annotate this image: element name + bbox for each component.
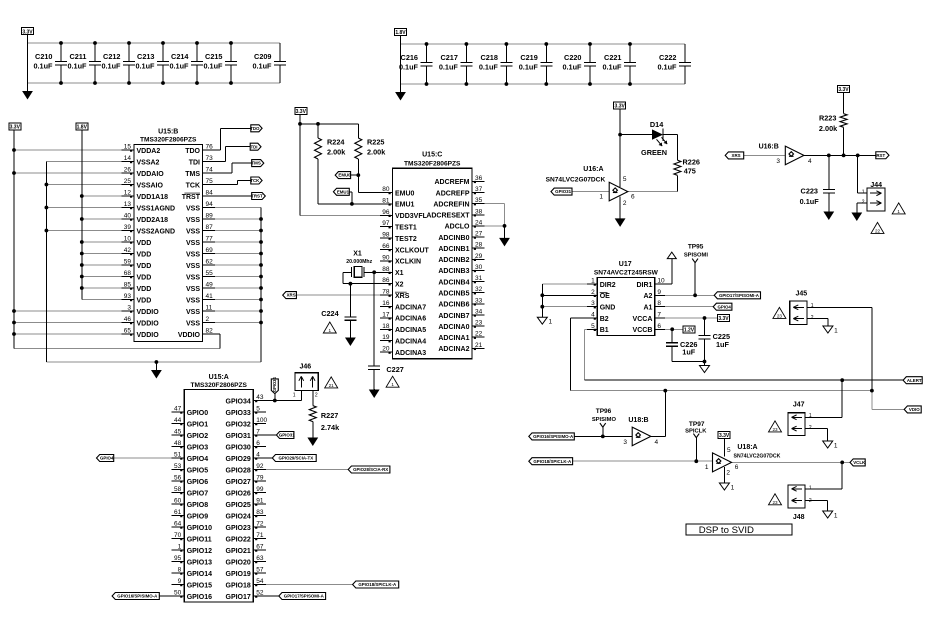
svg-text:XRS: XRS bbox=[732, 153, 741, 158]
svg-text:1: 1 bbox=[591, 278, 595, 285]
svg-text:54: 54 bbox=[256, 578, 264, 585]
svg-text:TMS320F2806PZS: TMS320F2806PZS bbox=[191, 382, 248, 389]
svg-text:ADCINA6: ADCINA6 bbox=[395, 316, 426, 323]
svg-text:GPIO14: GPIO14 bbox=[187, 571, 212, 578]
svg-text:VDIO: VDIO bbox=[909, 407, 920, 412]
svg-text:9: 9 bbox=[657, 289, 661, 296]
svg-text:C211: C211 bbox=[69, 52, 86, 61]
svg-text:77: 77 bbox=[206, 236, 214, 243]
svg-text:5: 5 bbox=[591, 323, 595, 330]
svg-text:91: 91 bbox=[256, 498, 264, 505]
svg-text:ADCREFP: ADCREFP bbox=[436, 190, 470, 197]
svg-text:A2: A2 bbox=[643, 293, 652, 300]
svg-text:J45: J45 bbox=[795, 290, 807, 297]
svg-text:VDD: VDD bbox=[137, 274, 152, 281]
svg-text:1.8V: 1.8V bbox=[77, 125, 88, 131]
svg-text:0.1uF: 0.1uF bbox=[602, 63, 622, 72]
svg-text:96: 96 bbox=[382, 209, 390, 216]
svg-text:VDD: VDD bbox=[137, 251, 152, 258]
svg-text:17: 17 bbox=[382, 311, 390, 318]
svg-text:VSS: VSS bbox=[186, 297, 200, 304]
svg-text:5: 5 bbox=[256, 406, 260, 413]
svg-text:ADCINA4: ADCINA4 bbox=[395, 339, 426, 346]
svg-text:23: 23 bbox=[475, 320, 483, 327]
svg-text:C220: C220 bbox=[564, 53, 581, 62]
svg-text:6: 6 bbox=[256, 440, 260, 447]
svg-text:ADCINA1: ADCINA1 bbox=[438, 335, 469, 342]
svg-text:C214: C214 bbox=[171, 52, 189, 61]
svg-text:GPIO29: GPIO29 bbox=[226, 456, 251, 463]
svg-text:GPIO26: GPIO26 bbox=[226, 490, 251, 497]
svg-text:32: 32 bbox=[475, 286, 483, 293]
svg-text:ADCINB2: ADCINB2 bbox=[438, 257, 469, 264]
svg-text:C221: C221 bbox=[604, 53, 621, 62]
svg-text:20: 20 bbox=[382, 346, 390, 353]
svg-text:C212: C212 bbox=[103, 52, 120, 61]
svg-text:12: 12 bbox=[124, 190, 132, 197]
svg-text:TEST1: TEST1 bbox=[395, 225, 417, 232]
svg-text:4: 4 bbox=[808, 158, 812, 165]
svg-text:41: 41 bbox=[206, 293, 214, 300]
svg-text:46: 46 bbox=[124, 316, 132, 323]
svg-text:87: 87 bbox=[206, 224, 214, 231]
svg-text:16: 16 bbox=[382, 300, 390, 307]
svg-text:VDDA2: VDDA2 bbox=[137, 148, 161, 155]
svg-text:TDI: TDI bbox=[189, 159, 200, 166]
svg-text:ADCRESEXT: ADCRESEXT bbox=[426, 213, 470, 220]
svg-text:ADCINB1: ADCINB1 bbox=[438, 246, 469, 253]
svg-text:57: 57 bbox=[256, 567, 264, 574]
svg-text:11: 11 bbox=[206, 305, 213, 312]
svg-text:75: 75 bbox=[206, 178, 214, 185]
svg-text:DSP to SVID: DSP to SVID bbox=[699, 525, 754, 536]
svg-text:30: 30 bbox=[475, 264, 483, 271]
svg-text:95: 95 bbox=[174, 555, 182, 562]
svg-text:98: 98 bbox=[382, 232, 390, 239]
svg-text:C216: C216 bbox=[401, 53, 418, 62]
svg-text:19: 19 bbox=[382, 334, 390, 341]
svg-text:ADCINA5: ADCINA5 bbox=[395, 327, 426, 334]
svg-text:2: 2 bbox=[811, 315, 814, 321]
svg-text:GPIO4: GPIO4 bbox=[100, 456, 114, 461]
svg-text:GPIO19: GPIO19 bbox=[226, 571, 251, 578]
svg-text:VSS2AGND: VSS2AGND bbox=[137, 228, 176, 235]
svg-text:10: 10 bbox=[124, 236, 132, 243]
svg-text:GPIO13: GPIO13 bbox=[187, 559, 212, 566]
svg-text:5: 5 bbox=[727, 447, 731, 454]
svg-text:0.1uF: 0.1uF bbox=[439, 63, 459, 72]
svg-text:3.3V: 3.3V bbox=[719, 433, 730, 439]
svg-text:ADCINA0: ADCINA0 bbox=[438, 324, 469, 331]
svg-text:21: 21 bbox=[329, 383, 335, 388]
svg-text:14: 14 bbox=[124, 155, 132, 162]
svg-text:VDD: VDD bbox=[137, 240, 152, 247]
svg-text:U15:B: U15:B bbox=[158, 129, 178, 136]
svg-text:DIR2: DIR2 bbox=[600, 282, 616, 289]
svg-text:C223: C223 bbox=[801, 187, 818, 196]
svg-text:GPIO23: GPIO23 bbox=[226, 525, 251, 532]
svg-text:U18:B: U18:B bbox=[628, 417, 648, 424]
svg-text:SN74AVC2T245RSW: SN74AVC2T245RSW bbox=[594, 270, 659, 277]
svg-text:81: 81 bbox=[382, 197, 390, 204]
svg-text:TRST: TRST bbox=[182, 194, 201, 201]
svg-text:VCCB: VCCB bbox=[633, 327, 653, 334]
svg-text:88: 88 bbox=[382, 266, 390, 273]
svg-text:VSS: VSS bbox=[186, 274, 200, 281]
svg-text:ADCINA2: ADCINA2 bbox=[438, 346, 469, 353]
svg-text:XRS: XRS bbox=[287, 293, 296, 298]
svg-text:1: 1 bbox=[834, 443, 838, 450]
svg-text:EMU0: EMU0 bbox=[338, 173, 351, 178]
svg-text:GPIO6: GPIO6 bbox=[187, 479, 209, 486]
svg-text:42: 42 bbox=[124, 247, 132, 254]
svg-text:GPIO11: GPIO11 bbox=[187, 536, 212, 543]
svg-text:ADCREFIN: ADCREFIN bbox=[433, 201, 469, 208]
svg-text:R226: R226 bbox=[683, 157, 700, 166]
svg-text:1: 1 bbox=[549, 319, 553, 326]
svg-text:1.2V: 1.2V bbox=[684, 327, 695, 333]
svg-text:GPIO21: GPIO21 bbox=[226, 548, 251, 555]
svg-text:4: 4 bbox=[591, 312, 595, 319]
svg-text:GPIO2: GPIO2 bbox=[187, 433, 209, 440]
svg-text:J46: J46 bbox=[299, 363, 311, 370]
svg-text:TEST2: TEST2 bbox=[395, 236, 417, 243]
svg-text:GPIO4: GPIO4 bbox=[187, 456, 209, 463]
svg-text:1: 1 bbox=[599, 193, 603, 200]
svg-text:SN74LVC2G07DCK: SN74LVC2G07DCK bbox=[734, 454, 781, 460]
svg-text:GPIO17: GPIO17 bbox=[226, 594, 251, 601]
svg-text:GPIO34: GPIO34 bbox=[226, 398, 251, 405]
svg-text:X2: X2 bbox=[395, 282, 404, 289]
svg-text:0.1uF: 0.1uF bbox=[169, 62, 189, 71]
svg-text:TCK: TCK bbox=[250, 178, 260, 183]
svg-text:VSSA2: VSSA2 bbox=[137, 159, 160, 166]
svg-text:VDD2A18: VDD2A18 bbox=[137, 217, 169, 224]
svg-text:R223: R223 bbox=[819, 114, 836, 123]
svg-text:62: 62 bbox=[206, 259, 214, 266]
svg-text:18: 18 bbox=[382, 323, 390, 330]
svg-text:83: 83 bbox=[256, 509, 264, 516]
svg-text:GPIO25: GPIO25 bbox=[226, 502, 251, 509]
svg-text:0.1uF: 0.1uF bbox=[519, 63, 539, 72]
svg-text:89: 89 bbox=[206, 213, 214, 220]
svg-text:C213: C213 bbox=[137, 52, 154, 61]
svg-text:9: 9 bbox=[178, 578, 182, 585]
svg-text:VSS: VSS bbox=[186, 320, 200, 327]
svg-text:5: 5 bbox=[623, 176, 627, 183]
svg-text:J47: J47 bbox=[793, 401, 805, 408]
svg-text:71: 71 bbox=[256, 532, 264, 539]
svg-text:GPIO30: GPIO30 bbox=[226, 444, 251, 451]
svg-text:38: 38 bbox=[475, 208, 483, 215]
svg-text:GPIO8: GPIO8 bbox=[187, 502, 209, 509]
svg-text:VCCA: VCCA bbox=[633, 316, 653, 323]
svg-text:0.1uF: 0.1uF bbox=[33, 62, 53, 71]
svg-text:R224: R224 bbox=[327, 138, 345, 147]
svg-text:VSS: VSS bbox=[186, 217, 200, 224]
svg-text:GPIO15: GPIO15 bbox=[187, 582, 212, 589]
svg-text:53: 53 bbox=[174, 463, 182, 470]
svg-text:C209: C209 bbox=[254, 52, 271, 61]
svg-text:23: 23 bbox=[777, 313, 783, 318]
svg-text:GPIO28/SCIA-RX: GPIO28/SCIA-RX bbox=[353, 467, 388, 472]
svg-text:VSS: VSS bbox=[186, 240, 200, 247]
svg-text:0.1uF: 0.1uF bbox=[657, 63, 677, 72]
svg-text:6: 6 bbox=[735, 464, 739, 471]
svg-text:J44: J44 bbox=[870, 182, 882, 189]
svg-text:90: 90 bbox=[382, 254, 390, 261]
svg-text:GPIO28: GPIO28 bbox=[226, 467, 251, 474]
svg-text:28: 28 bbox=[475, 242, 483, 249]
svg-text:58: 58 bbox=[174, 486, 182, 493]
svg-text:1.8V: 1.8V bbox=[395, 30, 406, 36]
svg-text:GPIO16/SPISIMO-A: GPIO16/SPISIMO-A bbox=[533, 434, 574, 439]
svg-text:ADCINA7: ADCINA7 bbox=[395, 304, 426, 311]
svg-text:C210: C210 bbox=[35, 52, 52, 61]
svg-text:21: 21 bbox=[475, 342, 483, 349]
svg-text:XRS: XRS bbox=[395, 293, 410, 300]
svg-text:U16:B: U16:B bbox=[759, 143, 779, 150]
svg-text:1uF: 1uF bbox=[682, 348, 696, 357]
svg-text:TMS: TMS bbox=[185, 171, 200, 178]
svg-text:U16:A: U16:A bbox=[583, 166, 603, 173]
svg-text:1: 1 bbox=[834, 513, 838, 520]
svg-text:76: 76 bbox=[206, 144, 214, 151]
svg-text:3: 3 bbox=[591, 300, 595, 307]
svg-text:XCLKIN: XCLKIN bbox=[395, 259, 421, 266]
svg-text:36: 36 bbox=[475, 175, 483, 182]
svg-text:2: 2 bbox=[862, 200, 865, 206]
svg-text:VDDIO: VDDIO bbox=[178, 332, 201, 339]
svg-text:3.3V: 3.3V bbox=[22, 29, 33, 35]
svg-text:VDD: VDD bbox=[137, 297, 152, 304]
svg-text:TDI: TDI bbox=[250, 144, 257, 149]
svg-text:2: 2 bbox=[206, 316, 210, 323]
svg-text:72: 72 bbox=[256, 521, 264, 528]
svg-text:0.1uF: 0.1uF bbox=[67, 62, 87, 71]
svg-text:VDD1A18: VDD1A18 bbox=[137, 194, 169, 201]
svg-text:1uF: 1uF bbox=[716, 340, 730, 349]
svg-text:4: 4 bbox=[256, 452, 260, 459]
svg-text:VDDAIO: VDDAIO bbox=[137, 171, 165, 178]
svg-text:X1: X1 bbox=[353, 251, 362, 258]
svg-text:R225: R225 bbox=[367, 138, 384, 147]
svg-text:22: 22 bbox=[475, 331, 483, 338]
svg-text:63: 63 bbox=[256, 555, 264, 562]
svg-text:VDD3VFL: VDD3VFL bbox=[395, 213, 428, 220]
svg-text:45: 45 bbox=[174, 429, 182, 436]
svg-text:6: 6 bbox=[631, 193, 635, 200]
svg-text:ADCINB4: ADCINB4 bbox=[438, 279, 469, 286]
svg-text:29: 29 bbox=[475, 253, 483, 260]
svg-text:RST: RST bbox=[876, 153, 885, 158]
svg-text:GPIO3: GPIO3 bbox=[187, 444, 209, 451]
svg-text:TMS320F2806PZS: TMS320F2806PZS bbox=[404, 160, 461, 167]
svg-text:52: 52 bbox=[256, 590, 264, 597]
svg-text:GPIO31: GPIO31 bbox=[279, 433, 295, 438]
svg-text:13: 13 bbox=[124, 201, 132, 208]
svg-text:2: 2 bbox=[726, 470, 730, 477]
svg-text:74: 74 bbox=[206, 167, 214, 174]
svg-text:10: 10 bbox=[657, 278, 665, 285]
svg-text:1: 1 bbox=[809, 413, 812, 419]
svg-text:93: 93 bbox=[124, 293, 132, 300]
svg-text:VDD: VDD bbox=[137, 286, 152, 293]
svg-text:VSS: VSS bbox=[186, 309, 200, 316]
svg-text:73: 73 bbox=[206, 155, 214, 162]
svg-text:70: 70 bbox=[174, 532, 182, 539]
svg-text:3.3V: 3.3V bbox=[838, 87, 849, 93]
svg-text:85: 85 bbox=[124, 282, 132, 289]
svg-text:GPIO34: GPIO34 bbox=[272, 377, 277, 393]
svg-text:1: 1 bbox=[329, 328, 332, 333]
svg-text:EMU1: EMU1 bbox=[337, 189, 350, 194]
svg-text:VSS: VSS bbox=[186, 251, 200, 258]
svg-text:GPIO31: GPIO31 bbox=[555, 189, 571, 194]
svg-text:GPIO17/SPISOMI-A: GPIO17/SPISOMI-A bbox=[284, 594, 325, 599]
svg-text:26: 26 bbox=[124, 167, 132, 174]
svg-text:VDD: VDD bbox=[137, 263, 152, 270]
svg-text:VSS: VSS bbox=[186, 263, 200, 270]
svg-text:0.1uF: 0.1uF bbox=[562, 63, 582, 72]
svg-text:3.3V: 3.3V bbox=[296, 109, 307, 115]
svg-text:GPIO33: GPIO33 bbox=[226, 410, 251, 417]
svg-text:60: 60 bbox=[174, 498, 182, 505]
svg-text:84: 84 bbox=[206, 190, 214, 197]
svg-text:GPIO9: GPIO9 bbox=[187, 513, 209, 520]
svg-text:69: 69 bbox=[206, 247, 214, 254]
svg-text:47: 47 bbox=[174, 406, 182, 413]
svg-text:15: 15 bbox=[124, 144, 132, 151]
svg-text:GPIO22: GPIO22 bbox=[226, 536, 251, 543]
svg-text:27: 27 bbox=[475, 231, 483, 238]
svg-text:7: 7 bbox=[256, 429, 260, 436]
svg-text:ADCREFM: ADCREFM bbox=[435, 179, 470, 186]
svg-text:61: 61 bbox=[174, 509, 182, 516]
svg-text:22: 22 bbox=[875, 228, 881, 233]
svg-text:SN74LVC2G07DCK: SN74LVC2G07DCK bbox=[546, 176, 606, 183]
svg-text:ADCINB5: ADCINB5 bbox=[438, 291, 469, 298]
svg-text:0.1uF: 0.1uF bbox=[252, 62, 272, 71]
svg-text:SPISIMO: SPISIMO bbox=[592, 417, 617, 423]
svg-text:C217: C217 bbox=[440, 53, 457, 62]
svg-text:3.3V: 3.3V bbox=[718, 316, 729, 322]
svg-text:24: 24 bbox=[475, 219, 483, 226]
svg-text:C222: C222 bbox=[659, 53, 676, 62]
svg-text:VDDIO: VDDIO bbox=[137, 332, 160, 339]
svg-text:92: 92 bbox=[256, 463, 264, 470]
svg-text:ADCINB6: ADCINB6 bbox=[438, 302, 469, 309]
svg-text:1: 1 bbox=[705, 464, 709, 471]
svg-text:U15:A: U15:A bbox=[209, 374, 229, 381]
svg-text:55: 55 bbox=[206, 270, 214, 277]
svg-text:U15:C: U15:C bbox=[422, 151, 442, 158]
svg-text:GPIO10: GPIO10 bbox=[187, 525, 212, 532]
svg-text:OE: OE bbox=[600, 293, 610, 300]
svg-text:25: 25 bbox=[124, 178, 132, 185]
svg-text:TMS320F2806PZS: TMS320F2806PZS bbox=[140, 136, 197, 143]
svg-text:39: 39 bbox=[124, 224, 132, 231]
svg-text:EMU1: EMU1 bbox=[395, 202, 415, 209]
svg-text:GPIO32: GPIO32 bbox=[226, 421, 251, 428]
svg-text:3.3V: 3.3V bbox=[615, 104, 626, 110]
svg-text:2: 2 bbox=[809, 425, 812, 431]
svg-text:VCLK: VCLK bbox=[853, 460, 866, 465]
svg-text:GPIO17/SPISOMI-A: GPIO17/SPISOMI-A bbox=[719, 293, 760, 298]
svg-text:2.00k: 2.00k bbox=[819, 124, 838, 133]
svg-text:3: 3 bbox=[127, 305, 131, 312]
svg-text:TP97: TP97 bbox=[689, 421, 705, 428]
svg-text:U17: U17 bbox=[619, 261, 632, 268]
svg-text:23: 23 bbox=[772, 427, 778, 432]
svg-text:TMS: TMS bbox=[252, 161, 261, 166]
svg-text:2: 2 bbox=[591, 289, 595, 296]
svg-text:X1: X1 bbox=[395, 270, 404, 277]
svg-text:GPIO16: GPIO16 bbox=[187, 594, 212, 601]
svg-text:43: 43 bbox=[256, 394, 264, 401]
svg-text:GND: GND bbox=[600, 305, 616, 312]
svg-text:DIR1: DIR1 bbox=[636, 282, 652, 289]
svg-text:1: 1 bbox=[731, 485, 735, 492]
svg-text:TP96: TP96 bbox=[596, 408, 612, 415]
svg-text:VSS: VSS bbox=[186, 228, 200, 235]
svg-text:64: 64 bbox=[174, 521, 182, 528]
svg-text:XCLKOUT: XCLKOUT bbox=[395, 247, 430, 254]
svg-text:B1: B1 bbox=[600, 327, 609, 334]
svg-text:VSSAIO: VSSAIO bbox=[137, 182, 164, 189]
svg-text:40: 40 bbox=[124, 213, 132, 220]
svg-text:TCK: TCK bbox=[186, 182, 200, 189]
svg-text:82: 82 bbox=[206, 328, 214, 335]
svg-text:GPIO5: GPIO5 bbox=[187, 467, 209, 474]
svg-text:86: 86 bbox=[382, 277, 390, 284]
svg-text:GPIO20: GPIO20 bbox=[226, 559, 251, 566]
svg-text:TP95: TP95 bbox=[688, 244, 704, 251]
svg-text:3: 3 bbox=[623, 439, 627, 446]
svg-text:TDO: TDO bbox=[185, 148, 200, 155]
svg-text:97: 97 bbox=[382, 220, 390, 227]
svg-text:100: 100 bbox=[256, 417, 267, 424]
svg-text:VSS: VSS bbox=[186, 205, 200, 212]
svg-text:99: 99 bbox=[256, 486, 264, 493]
svg-text:GPIO18/SPICLK-A: GPIO18/SPICLK-A bbox=[533, 459, 572, 464]
svg-text:66: 66 bbox=[382, 243, 390, 250]
svg-text:1: 1 bbox=[391, 382, 394, 387]
svg-text:GPIO16/SPISIMO-A: GPIO16/SPISIMO-A bbox=[117, 594, 158, 599]
svg-text:J48: J48 bbox=[793, 514, 805, 521]
svg-text:C227: C227 bbox=[386, 365, 403, 374]
svg-text:65: 65 bbox=[124, 328, 132, 335]
svg-text:1: 1 bbox=[293, 393, 296, 399]
svg-text:33: 33 bbox=[475, 297, 483, 304]
svg-text:2: 2 bbox=[623, 200, 627, 207]
svg-text:51: 51 bbox=[174, 452, 182, 459]
svg-text:2: 2 bbox=[315, 393, 318, 399]
svg-text:2.00k: 2.00k bbox=[327, 148, 346, 157]
svg-text:EMU0: EMU0 bbox=[395, 190, 415, 197]
svg-text:ALERT: ALERT bbox=[907, 378, 922, 383]
svg-text:A1: A1 bbox=[643, 305, 652, 312]
svg-text:GPIO7: GPIO7 bbox=[187, 490, 209, 497]
svg-text:1: 1 bbox=[862, 189, 865, 195]
svg-text:C218: C218 bbox=[480, 53, 497, 62]
svg-text:C215: C215 bbox=[205, 52, 222, 61]
svg-text:ADCLO: ADCLO bbox=[445, 224, 470, 231]
svg-text:GPIO18/SPICLK-A: GPIO18/SPICLK-A bbox=[358, 582, 397, 587]
svg-text:GPIO12: GPIO12 bbox=[187, 548, 212, 555]
svg-text:20.000Mhz: 20.000Mhz bbox=[346, 259, 372, 265]
svg-text:37: 37 bbox=[475, 186, 483, 193]
